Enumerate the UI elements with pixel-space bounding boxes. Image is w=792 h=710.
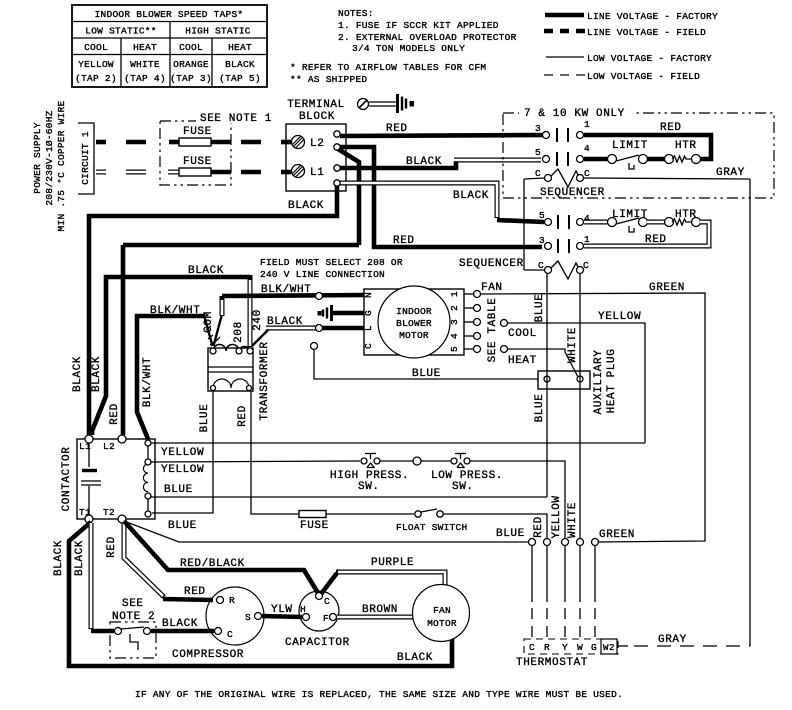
svg-text:C: C — [538, 260, 544, 271]
wire RED terminal2 branch — [123, 147, 542, 435]
svg-text:Y: Y — [562, 642, 568, 653]
legend low voltage field — [544, 71, 700, 82]
wire PURPLE capacitor C to fan motor — [321, 557, 445, 594]
legend line voltage factory — [545, 11, 718, 22]
svg-text:RED: RED — [109, 403, 121, 425]
svg-text:YELLOW: YELLOW — [598, 311, 641, 323]
overload protector see note 2 — [110, 598, 156, 658]
svg-text:208: 208 — [233, 321, 245, 343]
fuse F2 — [168, 156, 291, 176]
svg-text:HEAT: HEAT — [228, 42, 252, 53]
svg-text:RED: RED — [660, 122, 682, 134]
svg-text:BLUE: BLUE — [534, 394, 546, 423]
svg-text:FAN: FAN — [481, 282, 503, 294]
svg-text:BLACK: BLACK — [267, 316, 303, 328]
svg-text:BLUE: BLUE — [199, 404, 211, 433]
svg-text:RED/BLACK: RED/BLACK — [180, 558, 245, 570]
svg-text:(TAP 3): (TAP 3) — [170, 73, 212, 84]
svg-text:RED: RED — [386, 123, 408, 135]
thermostat connector circles — [529, 529, 636, 546]
svg-text:MIN .75 °C COPPER WIRE: MIN .75 °C COPPER WIRE — [56, 100, 67, 231]
wire BLACK to transformer 240 tap — [248, 275, 253, 347]
svg-text:WHITE: WHITE — [567, 502, 579, 538]
contactor — [61, 435, 155, 523]
auxiliary heat plug — [538, 349, 618, 415]
svg-text:** AS SHIPPED: ** AS SHIPPED — [290, 74, 367, 85]
wire RED lower heater loop hollow — [584, 222, 709, 246]
lower contact 3-1 — [539, 234, 590, 253]
svg-text:S: S — [245, 612, 251, 623]
wire BROWN capacitor F to fan motor — [337, 604, 413, 617]
wire BLUE T2 to thermostat C — [124, 521, 528, 542]
svg-text:COOL: COOL — [508, 328, 537, 340]
svg-text:T2: T2 — [103, 507, 115, 518]
indoor blower speed taps table — [72, 5, 267, 87]
7 and 10 KW only dash-dot box — [503, 106, 774, 198]
capacitor — [285, 591, 350, 649]
svg-text:208/230V-1Ø-60HZ: 208/230V-1Ø-60HZ — [44, 110, 55, 205]
svg-text:COOL: COOL — [84, 42, 108, 53]
svg-text:THERMOSTAT: THERMOSTAT — [516, 657, 588, 669]
svg-text:7 & 10 KW ONLY: 7 & 10 KW ONLY — [524, 108, 625, 120]
wire GRAY dashed to thermostat W2 — [617, 634, 750, 646]
wire YELLOW coil c2 through pressure switches to thermostat Y — [151, 454, 565, 539]
svg-text:CAPACITOR: CAPACITOR — [285, 637, 350, 649]
svg-text:TERMINAL: TERMINAL — [287, 99, 345, 111]
wire BLUE transformer secondary — [152, 391, 213, 513]
svg-text:BLACK: BLACK — [397, 652, 433, 664]
svg-text:YELLOW: YELLOW — [78, 59, 114, 70]
ground screw top — [358, 94, 415, 113]
wire BLACK main terminal4 down to contactor L1 — [89, 186, 337, 435]
svg-text:W: W — [577, 642, 583, 653]
svg-text:BLACK: BLACK — [288, 200, 324, 212]
svg-text:3: 3 — [539, 235, 545, 246]
svg-text:G: G — [363, 310, 374, 316]
svg-text:BLOWER: BLOWER — [396, 318, 432, 329]
svg-text:SW.: SW. — [358, 481, 380, 493]
upper heater HTR — [647, 140, 701, 164]
svg-text:BROWN: BROWN — [362, 604, 398, 616]
svg-text:FUSE: FUSE — [300, 520, 329, 532]
terminal block — [286, 99, 346, 212]
wire BLACK T1 to overload — [74, 523, 114, 631]
notes text — [290, 8, 517, 85]
screw L2 — [292, 136, 325, 151]
wire YLW compressor S to capacitor H — [262, 604, 302, 617]
upper limit switch — [584, 140, 648, 169]
vertical wire labels left column — [72, 356, 154, 425]
svg-text:POWER SUPPLY: POWER SUPPLY — [32, 122, 43, 193]
legend low voltage factory — [546, 53, 712, 64]
svg-text:YELLOW: YELLOW — [551, 495, 563, 538]
svg-text:BLACK: BLACK — [225, 59, 255, 70]
svg-text:COOL: COOL — [179, 42, 203, 53]
wire L2 feed dashed thick — [96, 140, 106, 145]
svg-text:RED: RED — [106, 536, 118, 558]
field select note — [260, 257, 403, 280]
wire RED fuse float switch to thermostat R — [299, 509, 547, 538]
compressor — [172, 587, 264, 661]
svg-text:4: 4 — [584, 143, 590, 154]
wire RED upper heater loop — [584, 122, 711, 159]
legend line voltage field — [544, 27, 706, 38]
svg-text:2: 2 — [449, 305, 460, 311]
svg-text:COMPRESSOR: COMPRESSOR — [172, 649, 244, 661]
svg-text:INDOOR BLOWER SPEED TAPS*: INDOOR BLOWER SPEED TAPS* — [95, 9, 244, 20]
svg-text:L2: L2 — [103, 441, 115, 452]
svg-text:R: R — [229, 595, 235, 606]
svg-text:NOTE 2: NOTE 2 — [112, 611, 155, 623]
svg-text:RED: RED — [533, 516, 545, 538]
wire BLK/WHT to motor N — [222, 284, 364, 316]
wire BLACK terminal3 to upper sequencer contact5 — [340, 156, 541, 168]
wire BLUE motor C — [311, 343, 539, 381]
terminal circles — [334, 131, 340, 137]
wire BLACK transformer 240 to motor L — [252, 316, 364, 346]
thermostat leads solid then dashed — [532, 546, 595, 638]
wire upper seq left C down to lower seq — [523, 179, 525, 270]
svg-text:SW.: SW. — [452, 481, 474, 493]
contactor coil — [143, 440, 151, 517]
upper contact 5-4 — [535, 143, 590, 166]
svg-text:FLOAT SWITCH: FLOAT SWITCH — [396, 522, 467, 533]
svg-text:C: C — [529, 642, 535, 653]
svg-text:SEE NOTE 1: SEE NOTE 1 — [200, 113, 272, 125]
svg-text:CONTACTOR: CONTACTOR — [61, 447, 73, 512]
svg-text:LINE VOLTAGE - FIELD: LINE VOLTAGE - FIELD — [587, 27, 706, 38]
svg-text:3/4 TON MODELS ONLY: 3/4 TON MODELS ONLY — [352, 43, 465, 54]
motor tap 4 stub — [464, 333, 481, 340]
svg-text:INDOOR: INDOOR — [396, 306, 432, 317]
svg-text:240 V LINE CONNECTION: 240 V LINE CONNECTION — [260, 269, 385, 280]
wire RED terminal1 to upper sequencer contact3 — [340, 123, 543, 136]
svg-text:FIELD MUST SELECT 208 OR: FIELD MUST SELECT 208 OR — [260, 257, 403, 268]
svg-text:BLACK: BLACK — [188, 265, 224, 277]
svg-text:3: 3 — [535, 123, 541, 134]
svg-text:C: C — [363, 343, 374, 349]
svg-text:BLUE: BLUE — [168, 520, 197, 532]
wire BLK/WHT from L2 area to transformer COM — [137, 305, 205, 439]
svg-text:3: 3 — [449, 319, 460, 325]
svg-text:GREEN: GREEN — [649, 282, 685, 294]
svg-text:HTR: HTR — [675, 140, 697, 152]
svg-text:C: C — [583, 260, 589, 271]
svg-text:SEQUENCER: SEQUENCER — [540, 187, 605, 199]
svg-text:5: 5 — [449, 346, 460, 352]
svg-text:1: 1 — [584, 119, 590, 130]
svg-text:BLACK: BLACK — [72, 356, 84, 392]
fan motor — [397, 585, 470, 665]
svg-text:L: L — [363, 325, 374, 331]
upper contact 3-1 — [535, 119, 590, 142]
svg-text:HEAT: HEAT — [508, 355, 537, 367]
screw L1 — [292, 165, 325, 180]
svg-text:F: F — [323, 613, 329, 624]
wire BLUE coil c3 to sequencer blue — [151, 484, 547, 497]
svg-text:1. FUSE IF SCCR KIT APPLIED: 1. FUSE IF SCCR KIT APPLIED — [338, 20, 499, 31]
motor tap 2 stub — [464, 305, 481, 312]
svg-text:RED: RED — [184, 586, 206, 598]
wire RED/BLACK T2 to capacitor C — [124, 521, 318, 593]
motor tap 1 FAN wire to GREEN — [464, 282, 705, 542]
power supply label — [32, 100, 67, 231]
see note 1 fuse box — [160, 112, 276, 185]
svg-text:(TAP 4): (TAP 4) — [124, 73, 166, 84]
svg-text:LOW VOLTAGE - FIELD: LOW VOLTAGE - FIELD — [587, 71, 700, 82]
upper sequencer C row — [524, 167, 750, 199]
svg-text:BLACK: BLACK — [406, 156, 442, 168]
svg-text:AUXILIARY: AUXILIARY — [593, 350, 605, 415]
svg-text:1: 1 — [449, 291, 460, 297]
svg-text:FUSE: FUSE — [183, 126, 212, 138]
svg-text:FAN: FAN — [433, 605, 451, 616]
svg-text:NOTES:: NOTES: — [338, 8, 374, 19]
svg-text:YELLOW: YELLOW — [161, 447, 204, 459]
svg-text:BLUE: BLUE — [164, 484, 193, 496]
svg-text:MOTOR: MOTOR — [427, 618, 457, 629]
transformer COM V-connection — [205, 316, 222, 346]
wire BLACK overload to compressor C — [151, 618, 214, 631]
svg-text:C: C — [584, 168, 590, 179]
svg-text:RED: RED — [393, 235, 415, 247]
svg-text:BLACK: BLACK — [53, 540, 65, 576]
svg-text:ORANGE: ORANGE — [173, 59, 209, 70]
wire BLUE sequencer C to coil line — [534, 273, 547, 497]
svg-text:MOTOR: MOTOR — [399, 330, 429, 341]
wire BLACK terminal4 hollow to lower sequencer contact5 — [340, 183, 544, 222]
svg-text:BLACK: BLACK — [453, 190, 489, 202]
svg-text:L2: L2 — [310, 138, 324, 150]
svg-text:GRAY: GRAY — [658, 634, 687, 646]
svg-text:G: G — [591, 642, 597, 653]
svg-text:BLUE: BLUE — [534, 294, 546, 323]
svg-text:BLUE: BLUE — [496, 528, 525, 540]
circuit 1 bracket — [78, 123, 94, 194]
svg-text:LINE VOLTAGE - FACTORY: LINE VOLTAGE - FACTORY — [587, 11, 718, 22]
svg-text:FUSE: FUSE — [183, 156, 212, 168]
thermostat — [516, 639, 618, 669]
svg-text:2. EXTERNAL OVERLOAD PROTECTOR: 2. EXTERNAL OVERLOAD PROTECTOR — [338, 32, 517, 43]
svg-text:C: C — [324, 596, 330, 607]
svg-text:4: 4 — [449, 333, 460, 339]
svg-text:YLW: YLW — [271, 604, 293, 616]
lower sequencer C row — [459, 258, 589, 279]
fuse F1 — [169, 126, 291, 146]
svg-text:BLACK: BLACK — [74, 540, 86, 576]
svg-text:YELLOW: YELLOW — [161, 464, 204, 476]
svg-text:1: 1 — [584, 234, 590, 245]
svg-text:SEE: SEE — [122, 598, 144, 610]
svg-text:LIMIT: LIMIT — [612, 140, 648, 152]
svg-text:BLACK: BLACK — [91, 356, 103, 392]
svg-text:TRANSFORMER: TRANSFORMER — [259, 341, 271, 420]
wire BLACK T1 outer loop to fan motor — [53, 522, 452, 666]
lower limit switch — [584, 209, 648, 232]
svg-text:* REFER TO AIRFLOW TABLES FOR: * REFER TO AIRFLOW TABLES FOR CFM — [290, 62, 486, 73]
svg-text:LOW VOLTAGE - FACTORY: LOW VOLTAGE - FACTORY — [587, 53, 712, 64]
svg-text:HIGH STATIC: HIGH STATIC — [185, 26, 251, 37]
wire WHITE sequencer C to thermostat W — [567, 273, 580, 538]
wire YELLOW coil c1 line to cool — [151, 443, 645, 459]
svg-text:GRAY: GRAY — [716, 167, 745, 179]
wire RED T2 to compressor R — [106, 523, 213, 600]
svg-text:(TAP 5): (TAP 5) — [219, 73, 261, 84]
svg-text:BLK/WHT: BLK/WHT — [150, 305, 200, 317]
motor ground — [318, 305, 365, 321]
lower heater HTR — [647, 209, 701, 227]
svg-text:N: N — [363, 292, 374, 298]
svg-text:5: 5 — [539, 210, 545, 221]
svg-text:SEE TABLE: SEE TABLE — [487, 298, 499, 363]
svg-text:W2: W2 — [603, 643, 615, 653]
wire BLACK second vertical to L1 — [92, 265, 250, 435]
svg-text:BLUE: BLUE — [412, 368, 441, 380]
svg-text:SEQUENCER: SEQUENCER — [459, 258, 524, 270]
svg-text:PURPLE: PURPLE — [371, 557, 414, 569]
svg-text:RED: RED — [237, 405, 249, 427]
svg-text:HEAT: HEAT — [133, 42, 157, 53]
wire L1 feed dashed hollow — [96, 170, 146, 175]
motor tap 3 COOL wire — [464, 311, 645, 443]
svg-text:GREEN: GREEN — [599, 529, 635, 541]
svg-text:CIRCUIT 1: CIRCUIT 1 — [80, 131, 91, 185]
svg-text:LOW STATIC**: LOW STATIC** — [85, 26, 156, 37]
svg-text:5: 5 — [535, 147, 541, 158]
wire RED transformer secondary to fuse — [251, 391, 299, 514]
svg-text:H: H — [300, 604, 306, 615]
svg-text:BLOCK: BLOCK — [299, 111, 335, 123]
svg-text:HEAT PLUG: HEAT PLUG — [606, 349, 618, 414]
svg-text:BLACK: BLACK — [162, 618, 198, 630]
motor tap 5 HEAT wire — [464, 346, 578, 378]
svg-text:C: C — [227, 629, 233, 640]
svg-text:L1: L1 — [310, 167, 324, 179]
svg-text:R: R — [544, 642, 550, 653]
svg-text:WHITE: WHITE — [567, 327, 579, 363]
indoor blower motor — [363, 286, 464, 358]
svg-text:COM: COM — [203, 311, 215, 333]
svg-text:C: C — [535, 168, 541, 179]
svg-text:IF ANY OF THE ORIGINAL WIRE IS: IF ANY OF THE ORIGINAL WIRE IS REPLACED,… — [135, 689, 623, 700]
wire GRAY vertical — [749, 179, 751, 646]
svg-text:WHITE: WHITE — [130, 59, 160, 70]
svg-text:BLK/WHT: BLK/WHT — [142, 357, 154, 407]
svg-text:240: 240 — [252, 309, 264, 331]
transformer — [199, 309, 271, 432]
svg-text:(TAP 2): (TAP 2) — [75, 73, 117, 84]
svg-text:RED: RED — [645, 234, 667, 246]
lower contact 5-4 — [539, 210, 590, 229]
